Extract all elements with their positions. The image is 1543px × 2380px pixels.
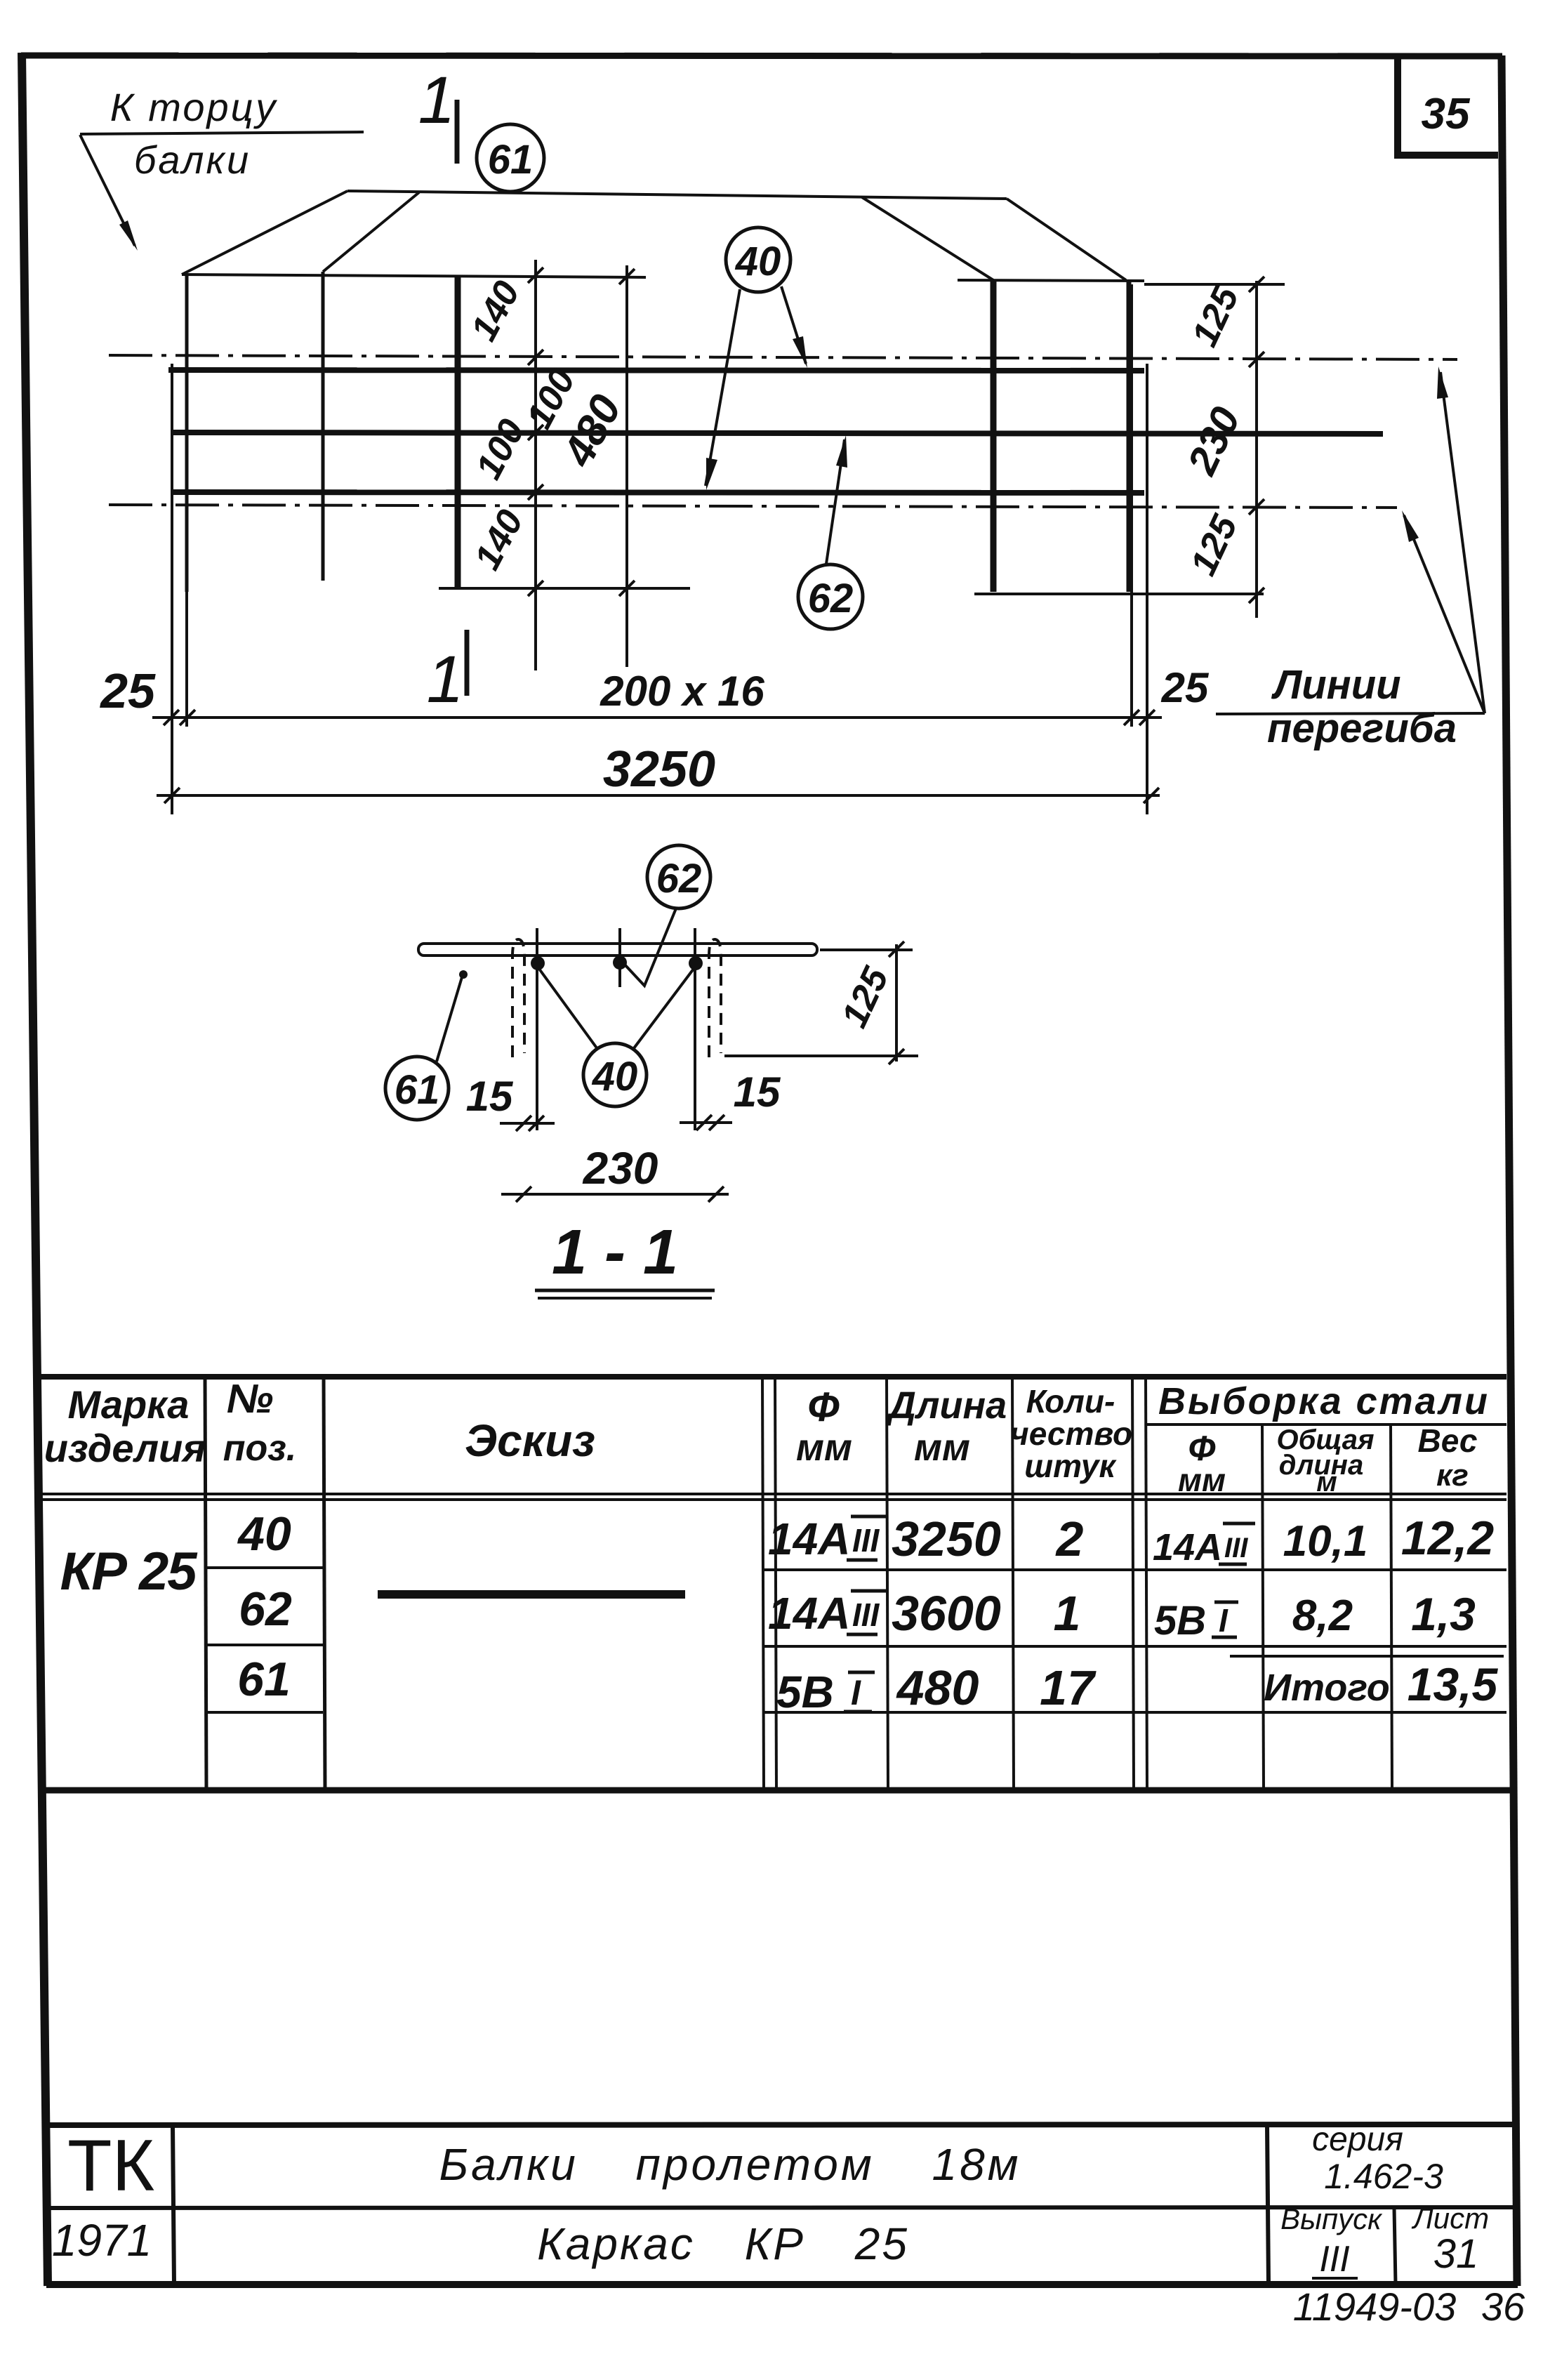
svg-text:Линии: Линии xyxy=(1271,662,1400,708)
svg-text:3600: 3600 xyxy=(892,1586,1001,1641)
svg-text:1: 1 xyxy=(427,642,464,717)
svg-text:3250: 3250 xyxy=(603,741,715,798)
svg-text:40: 40 xyxy=(237,1507,291,1561)
svg-text:25: 25 xyxy=(1161,664,1210,711)
svg-text:5В: 5В xyxy=(1154,1598,1206,1644)
svg-text:14А: 14А xyxy=(1153,1526,1222,1568)
svg-text:Марка: Марка xyxy=(68,1382,190,1427)
svg-text:61: 61 xyxy=(395,1067,440,1113)
svg-text:Ф: Ф xyxy=(807,1384,840,1430)
svg-text:62: 62 xyxy=(656,856,702,901)
svg-text:III: III xyxy=(852,1522,880,1559)
svg-text:1: 1 xyxy=(418,63,456,138)
svg-text:перегиба: перегиба xyxy=(1267,706,1457,751)
svg-text:12,2: 12,2 xyxy=(1401,1512,1495,1565)
svg-text:Эскиз: Эскиз xyxy=(465,1415,595,1466)
svg-text:1971: 1971 xyxy=(52,2215,152,2266)
svg-text:1 - 1: 1 - 1 xyxy=(552,1217,678,1288)
svg-text:мм: мм xyxy=(1178,1462,1226,1498)
svg-text:Лист: Лист xyxy=(1411,2202,1489,2235)
svg-text:17: 17 xyxy=(1040,1660,1097,1715)
svg-text:поз.: поз. xyxy=(223,1428,297,1469)
svg-text:Итого: Итого xyxy=(1264,1667,1390,1709)
svg-text:10,1: 10,1 xyxy=(1283,1517,1368,1566)
svg-text:61: 61 xyxy=(237,1653,291,1706)
svg-text:13,5: 13,5 xyxy=(1408,1658,1499,1710)
svg-text:I: I xyxy=(851,1673,861,1712)
svg-text:м: м xyxy=(1316,1467,1337,1498)
svg-text:8,2: 8,2 xyxy=(1292,1592,1353,1640)
svg-text:200 x 16: 200 x 16 xyxy=(600,668,764,715)
svg-text:31: 31 xyxy=(1433,2231,1479,2277)
svg-text:35: 35 xyxy=(1422,90,1471,138)
svg-text:мм: мм xyxy=(914,1427,970,1469)
svg-text:62: 62 xyxy=(808,576,854,621)
svg-text:III: III xyxy=(852,1596,880,1633)
svg-text:61: 61 xyxy=(488,137,534,183)
svg-text:36: 36 xyxy=(1481,2285,1525,2329)
svg-text:40: 40 xyxy=(592,1054,638,1099)
svg-text:15: 15 xyxy=(734,1069,781,1116)
svg-text:14А: 14А xyxy=(768,1588,850,1639)
svg-text:штук: штук xyxy=(1024,1448,1117,1484)
svg-text:Каркас КР 25: Каркас КР 25 xyxy=(537,2219,909,2269)
svg-text:балки: балки xyxy=(134,138,251,182)
svg-text:I: I xyxy=(1219,1602,1229,1639)
svg-text:40: 40 xyxy=(735,239,781,284)
svg-text:62: 62 xyxy=(239,1582,292,1636)
svg-text:III: III xyxy=(1319,2239,1349,2280)
svg-text:№: № xyxy=(227,1376,273,1422)
svg-text:1,3: 1,3 xyxy=(1411,1588,1476,1640)
svg-text:кг: кг xyxy=(1436,1458,1469,1493)
svg-text:11949-03: 11949-03 xyxy=(1293,2285,1457,2329)
svg-text:КР 25: КР 25 xyxy=(60,1542,198,1601)
svg-text:мм: мм xyxy=(796,1427,852,1469)
svg-text:Вес: Вес xyxy=(1418,1422,1478,1459)
svg-text:серия: серия xyxy=(1312,2121,1403,2158)
svg-text:25: 25 xyxy=(99,663,156,718)
svg-text:Балки пролетом 18м: Балки пролетом 18м xyxy=(439,2139,1021,2190)
svg-text:чество: чество xyxy=(1010,1415,1132,1452)
svg-text:5В: 5В xyxy=(776,1667,834,1717)
svg-text:ТК: ТК xyxy=(67,2125,154,2207)
svg-text:230: 230 xyxy=(583,1143,658,1194)
svg-text:Выпуск: Выпуск xyxy=(1280,2202,1383,2235)
svg-text:Длина: Длина xyxy=(886,1384,1007,1427)
svg-text:К торцу: К торцу xyxy=(110,85,278,129)
svg-text:Коли-: Коли- xyxy=(1026,1383,1115,1420)
svg-text:480: 480 xyxy=(896,1660,979,1715)
svg-text:1: 1 xyxy=(1054,1586,1081,1641)
svg-text:изделия: изделия xyxy=(44,1426,206,1470)
svg-text:Выборка стали: Выборка стали xyxy=(1158,1380,1490,1422)
svg-text:1.462-3: 1.462-3 xyxy=(1324,2157,1443,2196)
svg-text:14А: 14А xyxy=(768,1514,850,1564)
svg-text:3250: 3250 xyxy=(892,1512,1001,1566)
svg-text:III: III xyxy=(1224,1533,1248,1563)
svg-text:2: 2 xyxy=(1055,1512,1084,1566)
svg-text:15: 15 xyxy=(466,1073,514,1120)
